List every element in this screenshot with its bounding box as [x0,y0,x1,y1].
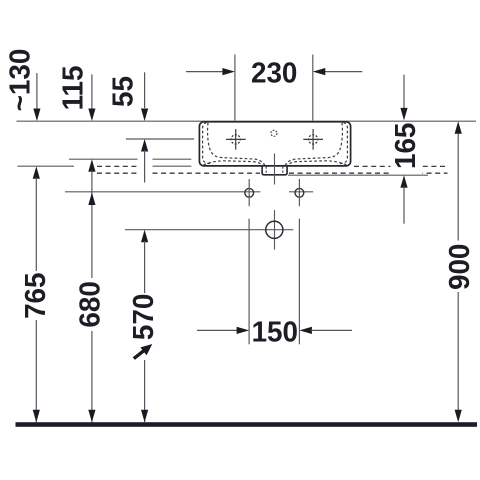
dimension 165 upper arrow [403,75,405,110]
dimension 230 left arrow [186,71,223,73]
wall reference line (rim level) [17,120,477,122]
dimension 570 floor arrow [141,410,148,423]
extension line 230 left [234,55,236,121]
dimension 570 upper arrow [141,230,148,243]
basin outer body [199,122,350,166]
dimension 55 lower arrow [141,139,148,152]
svg-text:230: 230 [251,57,297,90]
dimension 680 upper arrow head [88,193,95,206]
extension line 150 left [248,219,250,345]
dashed supply line center [153,172,261,174]
dimension 55 upper arrow [144,72,146,108]
tap hole left dotted circle [231,135,240,144]
siphon outlet circle [266,221,283,238]
svg-text:680: 680 [74,281,107,327]
svg-text:55: 55 [107,76,140,107]
basin bowl right bottom dashed [287,161,347,166]
basin inner rim dashed left [203,123,213,164]
line fixing-bolt axis [65,191,260,193]
basin bowl left wall dashed [208,123,266,168]
line basin-bottom right segment [153,165,192,167]
dimension 900 line [457,130,459,241]
line 115-target right [153,158,192,160]
overflow small dashed circle [271,130,277,136]
basin inner rim dashed right [338,123,348,164]
dimension 230 right arrow [325,71,362,73]
adjustable diagonal arrow [134,344,153,359]
dimension 150 left arrow [197,329,238,331]
tap hole right crosshair [303,138,323,140]
line 165-target (drain bottom level) [288,174,428,176]
dashed line basin-bottom middle [97,165,137,167]
label 230 [251,58,297,85]
extension line 230 right [312,55,314,121]
svg-text:115: 115 [57,66,90,111]
svg-text:165: 165 [390,123,423,169]
dimension 765 upper arrow [33,166,40,179]
svg-text:765: 765 [19,272,52,318]
drain center line [274,154,276,185]
floor line [16,422,478,427]
dimension 115 upper arrow [91,74,93,110]
svg-text:570: 570 [127,294,160,340]
svg-text:~130: ~130 [4,49,37,112]
line right bolt arm [289,191,313,193]
label 165 [391,123,423,174]
drain inner dashed walls [265,167,267,175]
dimension 165 lower arrow [400,175,407,188]
drain outlet box [262,166,287,175]
basin bowl left bottom dashed [204,161,264,166]
dimension ~130 upper arrow [36,73,38,109]
dimension 150 right arrow [299,327,312,334]
label 765 [21,271,48,320]
line 765-target [18,165,75,167]
line 55-target [126,138,194,140]
fixing bolt left [245,188,254,197]
basin bowl right wall dashed [284,123,342,168]
fixing bolt right [295,188,304,197]
label 150 [252,317,297,344]
dimension 900 floor arrow [455,410,462,423]
dimension 900 top arrow [455,121,462,134]
label 680 [76,278,103,331]
dimension 765 floor arrow [33,410,40,423]
tap hole left crosshair [226,138,246,140]
dimension 115 lower arrow [88,159,95,172]
line 115-target left [69,158,138,160]
line 570-target (siphon axis) [125,229,293,231]
dashed supply line right [289,172,448,174]
svg-text:900: 900 [443,244,476,290]
dimension 680 floor arrow [88,410,95,423]
dashed supply line left [97,172,137,174]
extension line 150 right [298,219,300,345]
tap hole right dotted circle [309,135,318,144]
dashed line basin-bottom far right [354,165,448,167]
svg-text:150: 150 [252,316,298,349]
